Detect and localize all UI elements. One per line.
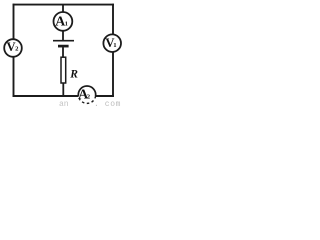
svg-text:an: an: [59, 100, 69, 107]
svg-text:1: 1: [65, 20, 68, 27]
wire right lower (bottom corner to V1): [112, 52, 114, 97]
wire top (node between V2, A1, V1): [13, 4, 114, 6]
voltmeter V1: [103, 34, 121, 52]
voltmeter V2: [4, 39, 22, 57]
wire A1 to battery: [62, 30, 64, 40]
wire left lower (V2 to bottom wire): [13, 57, 15, 97]
wire bottom left (corner to A2): [13, 95, 79, 97]
wire right upper (V1 to top corner): [112, 4, 114, 35]
svg-text:. com: . com: [94, 100, 121, 107]
ammeter A1: [54, 12, 73, 31]
wire A1 drop (top wire to ammeter A1): [62, 5, 64, 13]
wire bottom right (A2 to corner): [95, 95, 114, 97]
battery negative plate (short thick): [58, 45, 69, 48]
wire left upper (top wire to V2): [13, 4, 15, 39]
battery positive plate (long): [53, 40, 74, 42]
wire battery to resistor: [62, 47, 64, 57]
ammeter A2: [78, 86, 95, 103]
svg-text:R: R: [69, 69, 78, 81]
resistor R (box): [61, 57, 66, 83]
wire resistor to bottom wire: [62, 83, 64, 97]
svg-text:1: 1: [113, 42, 116, 49]
